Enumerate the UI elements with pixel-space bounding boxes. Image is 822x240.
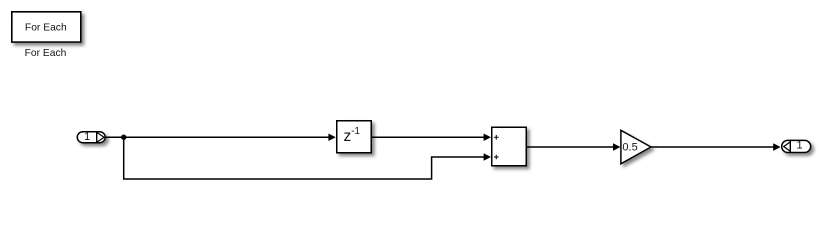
outport divider [789,140,791,152]
wire sum to gain [527,146,614,148]
arrowhead into sum upper input [484,133,491,141]
outport chevron [784,142,791,151]
arrowhead into outport [773,143,780,151]
wire junction to sum lower input [124,137,485,179]
sum plus sign lower [494,155,499,160]
gain block triangle [621,130,651,164]
inport divider [96,132,98,143]
svg-text:For Each: For Each [25,48,67,59]
For Each subsystem block [12,12,81,42]
wire gain to outport [651,146,774,148]
arrowhead into unit delay [328,133,335,141]
wire inport to unit delay [106,136,329,138]
svg-text:1: 1 [797,140,803,152]
inport In1 [77,132,105,143]
outport Out1 [782,140,811,152]
arrowhead into gain [613,143,620,151]
svg-text:0.5: 0.5 [622,142,637,154]
inport chevron [97,133,104,142]
sum plus sign upper [494,135,499,140]
svg-text:For Each: For Each [25,22,67,33]
unit delay block [337,121,372,153]
junction dot [121,135,126,140]
sum block [492,127,527,166]
svg-text:1: 1 [84,131,90,143]
wire unit delay to sum upper input [372,136,484,138]
arrowhead into sum lower input [484,153,491,161]
